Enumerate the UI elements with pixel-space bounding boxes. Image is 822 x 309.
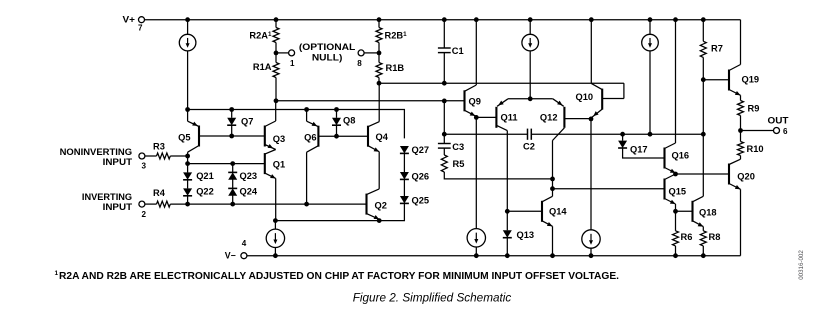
transistor Q3 bar	[264, 126, 266, 147]
transistor Q9 emitter arrow	[470, 112, 476, 116]
wire Q21 anode lead	[187, 164, 189, 173]
svg-text:V−: V−	[225, 251, 236, 261]
transistor Q3 emitter arrow	[268, 144, 274, 148]
diode-transistor Q21	[183, 172, 192, 179]
svg-text:R6: R6	[681, 232, 693, 242]
node Q14 rail junction	[550, 253, 555, 258]
node null-8 junction	[377, 51, 382, 56]
wire C3 upper lead	[443, 134, 445, 143]
wire Q27-Q26 lead	[403, 154, 405, 172]
junction on top rail at I1	[185, 17, 190, 22]
transistor Q5 collector	[188, 146, 199, 153]
node Q8 anode junction	[334, 107, 339, 112]
svg-text:Q23: Q23	[240, 171, 258, 181]
wire I2 top lead	[529, 20, 531, 35]
wire Q3 collector stub	[275, 101, 277, 121]
transistor Q6 emitter	[307, 121, 319, 127]
wire Q5 emitter stub	[187, 110, 189, 122]
node R1B bottom junction	[377, 81, 382, 86]
diode-transistor Q8	[332, 118, 341, 125]
resistor R2B	[376, 28, 382, 43]
wire Q7 cathode lead	[231, 125, 233, 136]
wire R8 bottom lead	[702, 246, 704, 256]
svg-text:NULL): NULL)	[312, 53, 343, 63]
svg-text:6: 6	[783, 127, 788, 136]
resistor R9	[738, 101, 744, 116]
transistor Q12 collector	[553, 128, 565, 141]
svg-text:V+: V+	[123, 14, 136, 24]
junction on top rail at R2B	[377, 17, 382, 22]
wire R9 top lead	[740, 95, 742, 100]
wire I4 bottom lead	[274, 248, 276, 256]
transistor Q14 bar	[541, 201, 543, 222]
svg-text:NONINVERTING: NONINVERTING	[60, 147, 133, 157]
transistor Q15 emitter arrow	[670, 200, 676, 204]
wire R6 bottom lead	[675, 246, 677, 256]
transistor Q18 emitter arrow	[698, 222, 704, 226]
svg-text:4: 4	[242, 239, 247, 248]
wire R8 top lead	[702, 227, 704, 231]
transistor Q20 emitter	[729, 184, 741, 190]
wire R1A bottom lead	[275, 78, 277, 101]
svg-text:R9: R9	[748, 103, 760, 113]
resistor R4	[157, 201, 171, 207]
transistor Q12 bar	[563, 107, 565, 128]
resistor R6	[673, 231, 679, 246]
transistor Q3 collector	[265, 121, 276, 127]
transistor Q12 emitter	[553, 99, 564, 107]
svg-text:Q5: Q5	[178, 133, 190, 143]
transistor Q12 emitter arrow	[557, 101, 563, 106]
diode-transistor Q17	[618, 141, 627, 148]
transistor Q20 base lead	[676, 173, 730, 175]
node inv-Q22 junction	[185, 202, 190, 207]
transistor Q19 bar	[728, 70, 730, 91]
junction on top rail at I3	[648, 17, 653, 22]
node bus-R7 junction	[701, 132, 706, 137]
resistor R3	[157, 153, 171, 159]
wire R2A top lead	[275, 20, 277, 28]
svg-text:R8: R8	[709, 232, 721, 242]
transistor Q9 bar	[463, 90, 465, 111]
node Q23 top junction	[230, 161, 235, 166]
svg-text:Q24: Q24	[240, 187, 258, 197]
transistor Q16 bar	[663, 148, 665, 169]
wire bias bus	[188, 110, 405, 139]
transistor Q2 bar	[365, 194, 367, 215]
transistor Q10 emitter	[591, 109, 602, 118]
wire Q23-Q24 lead	[232, 179, 234, 188]
transistor Q2 collector	[367, 189, 380, 195]
svg-text:INPUT: INPUT	[103, 202, 133, 212]
wire I1 top lead	[187, 20, 189, 35]
node Q7 anode junction	[229, 107, 234, 112]
diode-transistor Q24	[228, 187, 237, 189]
wire Q13 anode lead	[506, 211, 508, 230]
svg-text:Figure 2. Simplified Schematic: Figure 2. Simplified Schematic	[353, 290, 512, 304]
wire bus C3 to C2	[444, 133, 527, 135]
wire Q4-Q2 stub	[378, 152, 380, 189]
wire Q18 collector stub	[702, 134, 704, 196]
wire R7 top lead	[702, 20, 704, 42]
node R1A bottom junction	[274, 98, 279, 103]
transistor Q1 emitter	[265, 173, 276, 178]
current source I2	[522, 34, 539, 51]
node inv-Q24 junction	[230, 202, 235, 207]
node Q6 collector junction	[304, 202, 309, 207]
svg-text:Q3: Q3	[273, 134, 285, 144]
svg-text:R2A AND R2B ARE ELECTRONICALLY: R2A AND R2B ARE ELECTRONICALLY ADJUSTED …	[59, 271, 619, 282]
transistor Q10 emitter arrow	[593, 111, 598, 116]
node Q15-Q18-R6 junction	[673, 209, 678, 214]
terminal V- pin 4	[241, 253, 247, 259]
wire Q4 collector stub	[378, 83, 380, 122]
node I3 bus junction	[648, 132, 653, 137]
node Q6 emitter junction	[304, 107, 309, 112]
transistor Q6 bar	[317, 126, 319, 147]
diode-transistor Q25	[400, 196, 409, 203]
terminal V+ pin 7	[139, 17, 145, 23]
svg-text:R10: R10	[747, 144, 764, 154]
transistor Q20 emitter arrow	[735, 185, 741, 189]
wire C1 top lead	[443, 20, 445, 48]
wire R7 bottom lead	[702, 57, 704, 79]
diode-transistor Q26	[400, 172, 409, 179]
transistor Q11 collector	[496, 125, 507, 130]
diode-transistor Q27	[400, 146, 409, 153]
wire R1B bottom lead	[378, 78, 380, 84]
node Q1 base junction	[185, 161, 190, 166]
wire Q17 anode lead	[622, 134, 624, 140]
svg-text:2: 2	[142, 210, 147, 219]
wire Q10 collector stub	[590, 20, 592, 84]
svg-text:Q21: Q21	[196, 171, 214, 181]
transistor Q3 emitter	[265, 145, 276, 150]
svg-text:Q10: Q10	[576, 92, 594, 102]
transistor Q15 emitter	[665, 199, 676, 205]
svg-text:Q16: Q16	[672, 151, 690, 161]
svg-text:R7: R7	[711, 43, 723, 53]
node Q7 base-line junction	[229, 134, 234, 139]
svg-text:Q1: Q1	[273, 159, 285, 169]
wire Q8 cathode lead	[336, 125, 338, 136]
resistor R8	[700, 231, 706, 246]
svg-text:R4: R4	[153, 188, 166, 198]
wire I6 bottom lead	[590, 248, 592, 256]
terminal null pin 8	[358, 50, 364, 56]
svg-text:Q8: Q8	[343, 116, 355, 126]
terminal noninverting input pin 3	[139, 153, 145, 159]
diode-transistor Q23	[228, 171, 237, 173]
node Q17 anode junction	[620, 132, 625, 137]
transistor Q11 emitter arrow	[498, 101, 504, 106]
transistor Q19 collector	[729, 65, 741, 71]
wire Q10 base fold horizontal	[602, 98, 624, 100]
svg-text:Q15: Q15	[669, 187, 687, 197]
wire Q21 chain top	[187, 156, 189, 164]
node I5 rail junction	[474, 253, 479, 258]
transistor Q14 emitter	[542, 221, 553, 227]
wire Q25 bottom elbow	[275, 204, 404, 221]
transistor Q15 collector	[665, 174, 676, 180]
node R6 rail junction	[673, 253, 678, 258]
node I4 rail junction	[273, 253, 278, 258]
wire Q24 anode lead	[232, 195, 234, 204]
node Q16-Q15-Q20 junction	[673, 172, 678, 177]
svg-text:INPUT: INPUT	[103, 157, 133, 167]
transistor Q12 base lead	[564, 118, 591, 120]
node R5 return junction	[550, 177, 555, 182]
node Q13 rail junction	[505, 253, 510, 258]
transistor Q9 collector	[465, 85, 477, 91]
wire I4 top lead	[274, 221, 276, 230]
resistor R10	[738, 142, 744, 156]
wire R2B-R1B junction lead	[378, 43, 380, 63]
transistor Q18 collector	[693, 196, 704, 202]
svg-text:C3: C3	[452, 142, 464, 152]
svg-text:3: 3	[142, 162, 147, 171]
transistor Q2 emitter	[367, 214, 380, 220]
wire Q11 collector stub	[506, 131, 508, 212]
node R8 rail junction	[701, 253, 706, 258]
svg-text:8: 8	[357, 59, 362, 68]
svg-text:R3: R3	[153, 142, 165, 152]
svg-text:1: 1	[55, 270, 59, 277]
wire R2A-R1A junction lead	[275, 43, 277, 63]
node C3 bus junction	[442, 132, 447, 137]
svg-text:Q26: Q26	[412, 171, 430, 181]
transistor Q6 collector	[307, 146, 319, 153]
junction on top rail at C1	[442, 17, 447, 22]
transistor Q18 base lead	[676, 210, 693, 212]
transistor Q4 collector	[368, 122, 379, 127]
capacitor C3	[438, 143, 451, 145]
transistor Q19 emitter arrow	[735, 91, 741, 95]
wire R2B top lead	[378, 20, 380, 28]
diode-transistor Q22	[183, 188, 192, 195]
svg-text:(OPTIONAL: (OPTIONAL	[299, 42, 356, 52]
wire Q11-Q12 emitter tee	[508, 98, 553, 100]
svg-text:Q25: Q25	[412, 195, 430, 205]
wire I5 top lead	[475, 117, 477, 228]
svg-text:1: 1	[290, 59, 295, 68]
wire input2 to R4	[145, 203, 157, 205]
wire Q7 base line right	[232, 135, 265, 137]
svg-text:OUT: OUT	[768, 116, 790, 126]
wire R10 top lead	[740, 131, 742, 142]
node C1 bottom junction	[442, 81, 447, 86]
current source I5	[467, 229, 485, 247]
wire I5 bottom lead	[475, 247, 477, 256]
transistor Q19 emitter	[729, 90, 741, 96]
svg-text:C1: C1	[452, 46, 464, 56]
node C3 branch junction	[442, 99, 447, 104]
transistor Q5 emitter arrow	[192, 122, 198, 126]
node Q19 base junction	[701, 77, 706, 82]
transistor Q18 bar	[691, 201, 693, 222]
wire Q19 collector stub	[740, 20, 742, 65]
svg-text:Q11: Q11	[501, 113, 518, 123]
wire R5 bottom elbow	[444, 172, 552, 179]
svg-text:INVERTING: INVERTING	[82, 192, 132, 202]
transistor Q1 collector	[265, 150, 276, 155]
transistor Q11 emitter	[497, 99, 508, 107]
node Q8 base-line junction	[334, 134, 339, 139]
wire Q21-Q22 lead	[187, 179, 189, 188]
svg-text:Q22: Q22	[196, 187, 214, 197]
node Q2 emitter junction	[377, 218, 382, 223]
wire OUT lead	[741, 130, 774, 132]
transistor Q19 base lead	[703, 79, 729, 81]
transistor Q4 emitter	[368, 146, 379, 152]
wire Q15 base line	[553, 188, 665, 190]
wire to null terminal 1	[276, 52, 289, 54]
resistor R5	[441, 155, 447, 172]
terminal null pin 1	[289, 50, 295, 56]
wire Q14 emitter stub	[552, 226, 554, 255]
transistor Q14 collector	[542, 196, 553, 202]
wire Q13 cathode lead	[506, 238, 508, 256]
transistor Q1 base lead	[188, 163, 265, 165]
svg-text:R1A: R1A	[253, 62, 272, 72]
wire R7-bus vertical	[702, 80, 704, 135]
transistor Q18 emitter	[693, 221, 704, 227]
transistor Q14 emitter arrow	[547, 222, 553, 226]
wire C3-R5 lead	[443, 148, 445, 155]
wire Q6 collector stub	[306, 152, 308, 204]
wire C1 bottom lead	[443, 53, 445, 84]
transistor Q15 bar	[663, 179, 665, 200]
wire Q5 collector stub	[187, 152, 189, 156]
svg-text:R5: R5	[453, 159, 465, 169]
transistor Q9 emitter	[465, 110, 477, 116]
junction on top rail at R7	[701, 17, 706, 22]
transistor Q16 emitter arrow	[670, 169, 676, 173]
junction on top rail at Q9 collector	[474, 17, 479, 22]
wire Q23 cathode lead	[232, 164, 234, 173]
resistor R1B	[376, 63, 382, 78]
wire R6 top lead	[675, 211, 677, 231]
transistor Q6 base lead	[318, 135, 336, 137]
svg-text:Q6: Q6	[304, 133, 316, 143]
wire net R1A-Q9base	[276, 100, 465, 102]
transistor Q14 base lead	[507, 210, 542, 212]
wire Q8 anode lead	[336, 110, 338, 118]
transistor Q11 bar	[495, 107, 497, 128]
wire Q17 cathode elbow	[623, 148, 665, 158]
node Q11-Q12 emitter junction	[528, 96, 533, 101]
wire R10 bottom lead	[740, 156, 742, 160]
svg-text:Q19: Q19	[742, 74, 760, 84]
resistor R2A	[273, 28, 279, 43]
junction on top rail at R2A	[274, 17, 279, 22]
wire I1 bottom lead	[187, 51, 189, 110]
wire R9 bottom lead	[740, 116, 742, 131]
svg-text:Q9: Q9	[469, 97, 481, 107]
node Q13-Q14 base junction	[505, 209, 510, 214]
wire I3 bottom lead	[649, 51, 651, 134]
resistor R1A	[273, 63, 279, 78]
terminal inverting input pin 2	[139, 201, 145, 207]
wire Q6 emitter stub	[306, 110, 308, 122]
wire Q22 cathode lead	[187, 195, 189, 204]
transistor Q4 bar	[367, 126, 369, 147]
transistor Q20 bar	[728, 164, 730, 185]
transistor Q1 bar	[264, 153, 266, 174]
node Q9 emitter junction	[474, 115, 479, 120]
wire Q7 anode lead	[231, 110, 233, 118]
diode-transistor Q13	[503, 230, 512, 237]
svg-text:Q12: Q12	[540, 113, 558, 123]
node Q15 base junction	[550, 186, 555, 191]
capacitor C2	[527, 129, 529, 140]
wire I6 top lead	[590, 119, 592, 230]
wire Q20 emitter stub	[740, 189, 742, 255]
node null-1 junction	[274, 51, 279, 56]
current source I6	[582, 230, 600, 248]
node noninv junction	[185, 154, 190, 159]
junction on top rail at Q10 collector	[589, 17, 594, 22]
wire C3 top lead	[443, 101, 445, 134]
wire Q10 base fold vertical	[623, 83, 625, 98]
wire R3 to node	[170, 155, 187, 157]
svg-text:7: 7	[138, 23, 143, 32]
transistor Q20 collector	[729, 159, 741, 164]
terminal OUT pin 6	[774, 128, 780, 134]
transistor Q4 emitter arrow	[374, 147, 380, 151]
wire Q15 emitter stub	[675, 204, 677, 211]
svg-text:Q4: Q4	[376, 132, 389, 142]
transistor Q10 collector	[591, 83, 602, 89]
wire Q12 collector stub	[552, 141, 554, 197]
svg-text:Q20: Q20	[737, 172, 755, 182]
wire input3 to R3	[145, 155, 157, 157]
junction on top rail at I2	[528, 17, 533, 22]
capacitor C1	[438, 47, 451, 49]
wire Q8 base line right	[337, 135, 369, 137]
node I6 rail junction	[589, 253, 594, 258]
wire I2 bottom lead	[529, 51, 531, 99]
svg-text:Q7: Q7	[241, 117, 253, 127]
transistor Q16 emitter	[665, 168, 676, 174]
svg-text:Q27: Q27	[412, 145, 430, 155]
transistor Q5 bar	[198, 126, 200, 147]
svg-text:00316-002: 00316-002	[798, 250, 805, 280]
wire net R1B-C1-Q10base	[379, 82, 624, 84]
wire Q16 collector stub	[675, 20, 677, 143]
resistor R7	[700, 41, 706, 57]
svg-text:C2: C2	[523, 141, 535, 151]
svg-text:R1B: R1B	[386, 63, 405, 73]
svg-text:Q14: Q14	[549, 207, 567, 217]
node bias bus I1/Q5	[185, 107, 190, 112]
node Q10 emitter junction	[589, 117, 594, 122]
transistor Q16 collector	[665, 143, 676, 149]
transistor Q6 emitter arrow	[312, 122, 318, 126]
diode-transistor Q7	[227, 118, 236, 125]
transistor Q2 emitter arrow	[374, 215, 380, 219]
svg-text:Q18: Q18	[699, 208, 717, 218]
current source I3	[642, 34, 659, 51]
wire V+ top rail	[145, 19, 741, 21]
wire I3 top lead	[649, 20, 651, 35]
transistor Q10 bar	[601, 89, 603, 110]
junction on top rail at Q16 collector	[673, 17, 678, 22]
wire Q1 emitter stub	[275, 178, 277, 220]
svg-text:Q2: Q2	[375, 201, 387, 211]
wire Q26-Q25 lead	[403, 180, 405, 196]
wire bus C2 to R7 node	[531, 133, 703, 135]
